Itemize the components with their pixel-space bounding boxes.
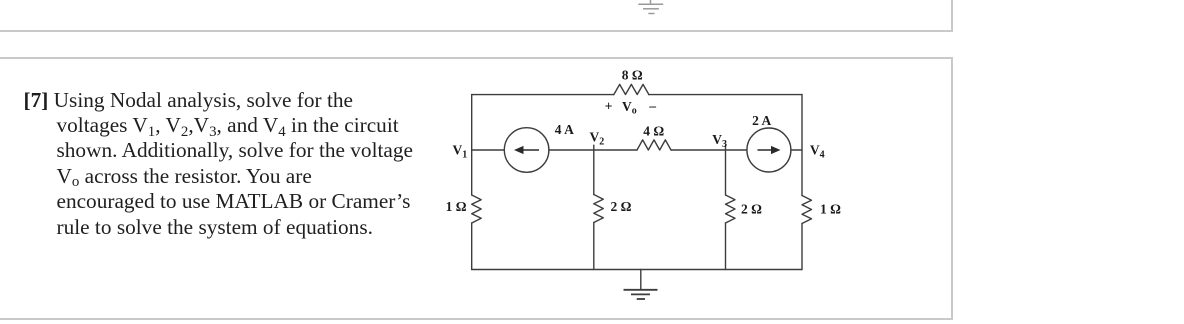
svg-text:–: – (648, 98, 656, 113)
wire V3 branch lower (725, 223, 727, 270)
svg-text:V1: V1 (453, 143, 468, 161)
wire top-left segment (472, 94, 614, 96)
wire right vertical upper (801, 95, 803, 196)
svg-text:V4: V4 (810, 143, 825, 161)
svg-text:+: + (605, 99, 613, 114)
wire node V1 to source (472, 149, 505, 151)
ground bar 1 (624, 289, 658, 291)
wire source 2A to right edge (791, 149, 802, 151)
wire left vertical upper (471, 95, 473, 195)
resistor 1ohm (right) (802, 196, 812, 224)
svg-text:2 Ω: 2 Ω (741, 202, 762, 217)
svg-text:V3: V3 (712, 132, 727, 150)
svg-text:8 Ω: 8 Ω (622, 68, 643, 83)
svg-text:Vo: Vo (622, 99, 637, 117)
svg-text:2 Ω: 2 Ω (611, 199, 632, 214)
svg-text:2 A: 2 A (752, 113, 771, 128)
wire node V3 to source 2A (671, 149, 747, 151)
ground bar 2 (631, 293, 650, 295)
wire top-right segment (649, 94, 802, 96)
partial ground symbol of previous circuit (0, 0, 1184, 60)
ground bar 3 (648, 13, 654, 15)
wire node V3 vertical with tick (725, 145, 727, 195)
resistor 1ohm (left) (472, 195, 482, 223)
wire bottom (472, 269, 802, 271)
arrow of 2A source (pointing right) (758, 149, 775, 151)
arrow of 4A source (pointing left) (523, 149, 540, 151)
resistor 8ohm (top) (614, 84, 649, 94)
problem statement text (24, 88, 454, 240)
resistor 2ohm (node V2 branch) (594, 195, 604, 223)
wire left vertical lower (471, 223, 473, 270)
top card (cut-off previous figure) (0, 0, 953, 32)
wire V2 branch lower (593, 223, 595, 270)
wire right vertical lower (801, 224, 803, 270)
current source 4A circle (504, 128, 549, 173)
svg-text:4 Ω: 4 Ω (643, 124, 664, 139)
svg-text:4 A: 4 A (555, 122, 574, 137)
ground stem (640, 270, 642, 290)
resistor 4ohm (middle) (637, 140, 671, 150)
resistor 2ohm (node V3 branch) (726, 195, 736, 223)
current source 2A circle (747, 128, 791, 172)
ground bar 1 (638, 3, 663, 5)
main problem card (0, 57, 953, 320)
ground bar 2 (643, 8, 659, 10)
ground bar 3 (637, 298, 645, 300)
ground stem (top, cut off) (650, 0, 652, 4)
wire node V2 vertical with tick (593, 145, 595, 194)
wire source to node V2 (549, 149, 637, 151)
svg-text:1 Ω: 1 Ω (820, 202, 841, 217)
svg-text:1 Ω: 1 Ω (446, 199, 467, 214)
svg-text:V2: V2 (590, 130, 605, 148)
